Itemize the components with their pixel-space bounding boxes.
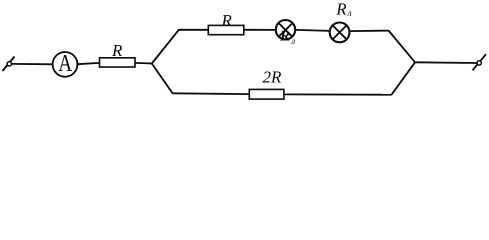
wire: lamp 1 to lamp 2 bbox=[295, 30, 330, 31]
ammeter A bbox=[53, 49, 78, 77]
wire: left terminal to ammeter bbox=[12, 63, 54, 65]
left terminal bbox=[3, 57, 15, 72]
resistor R1 bbox=[100, 58, 136, 67]
resistor R2 bbox=[208, 25, 244, 34]
label R_l (lamp 1) bbox=[279, 28, 295, 46]
wire: diagonal down to right node bbox=[389, 31, 416, 63]
wire: diagonal up from bottom rail to right node bbox=[392, 62, 416, 94]
svg-text:л: л bbox=[347, 8, 352, 18]
lamp L2 bbox=[330, 23, 350, 43]
svg-text:R: R bbox=[111, 41, 123, 60]
wire: right node to right terminal bbox=[415, 61, 477, 64]
wire: diagonal up from left node to top rail bbox=[152, 30, 179, 64]
svg-text:R: R bbox=[221, 11, 233, 30]
svg-text:A: A bbox=[58, 49, 72, 77]
wire: bottom rail to resistor 2R bbox=[172, 92, 249, 95]
svg-text:R: R bbox=[279, 28, 290, 44]
lamp L1 bbox=[276, 20, 295, 39]
resistor 2R bbox=[249, 89, 284, 99]
svg-text:2R: 2R bbox=[263, 67, 283, 86]
wire: lamp 2 to top-right diagonal bbox=[350, 30, 389, 33]
wire: diagonal down from left node to bottom rail bbox=[152, 64, 173, 94]
wire: resistor R2 to lamp 1 bbox=[244, 29, 276, 31]
node: right junction bbox=[0, 0, 1, 1]
svg-text:л: л bbox=[290, 36, 295, 46]
right terminal bbox=[473, 54, 487, 70]
svg-text:R: R bbox=[335, 0, 347, 18]
wire: resistor R1 to left node bbox=[135, 62, 152, 65]
wire: top rail to resistor R2 bbox=[178, 29, 208, 31]
wire: resistor 2R to bottom-right diagonal bbox=[284, 93, 392, 95]
wire: ammeter to resistor R1 bbox=[77, 63, 100, 64]
node: left junction bbox=[0, 0, 1, 1]
label R_l (lamp 2) bbox=[335, 0, 351, 18]
